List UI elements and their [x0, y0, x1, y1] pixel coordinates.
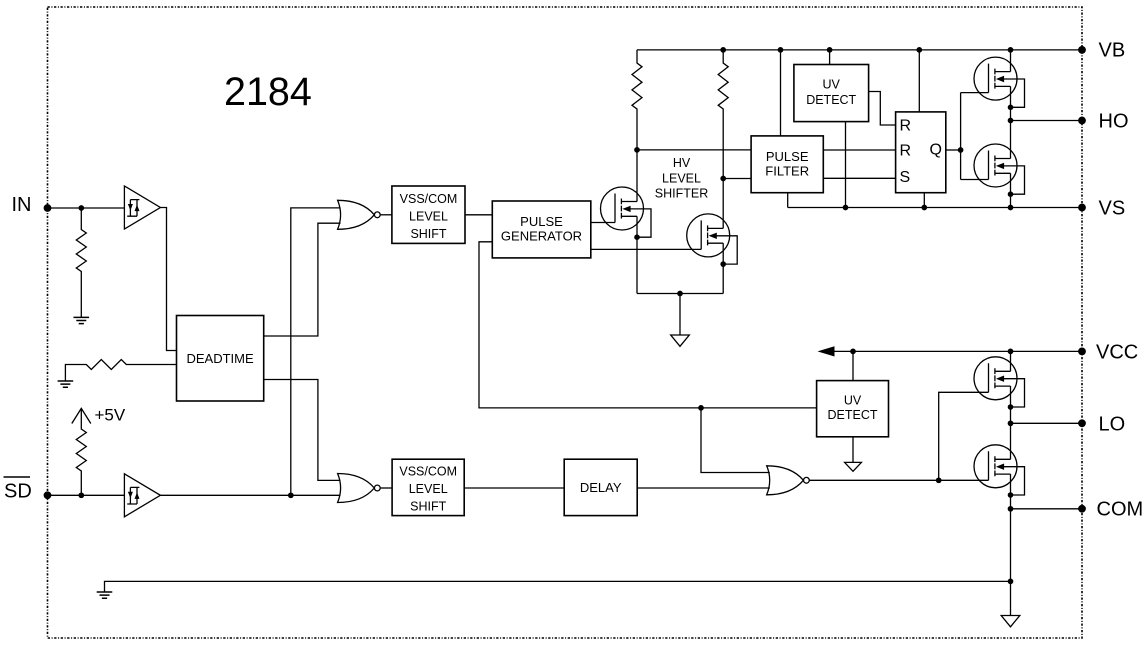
wire latch Q output	[946, 149, 961, 151]
wire Q4 drain to HO	[1010, 121, 1012, 159]
junction COM/VSS rail	[1008, 579, 1014, 585]
wire Q1 drain	[636, 150, 638, 202]
wire U6 output	[809, 479, 988, 481]
svg-text:DETECT: DETECT	[806, 93, 856, 107]
wire level shift to delay	[464, 487, 564, 489]
pin dot IN	[44, 204, 52, 212]
wire U2 output	[380, 487, 392, 489]
transistor Q5 (LO driver high)	[974, 357, 1025, 410]
VSS/COM LEVEL SHIFT block (low side)	[392, 459, 464, 515]
transistor Q6 (LO driver low)	[974, 445, 1025, 498]
svg-text:VCC: VCC	[1096, 342, 1138, 364]
svg-text:LEVEL: LEVEL	[409, 210, 448, 224]
wire DEADTIME lower output to NOR U2 upper input	[264, 380, 341, 481]
junction VB/pulse filter	[778, 47, 784, 53]
wire A1 output to DEADTIME top-left	[160, 208, 176, 351]
svg-text:COM: COM	[1097, 499, 1144, 521]
junction Q1 drain / R4 / pulse filter	[634, 147, 640, 153]
junction VS/UV detect	[843, 205, 849, 211]
pin dot LO	[1078, 419, 1086, 427]
junction VCC/UV detect	[850, 349, 856, 355]
transistor Q1 (HV level shift)	[601, 187, 652, 240]
ground (below R1)	[74, 317, 90, 323]
wire Q to gates of Q3/Q4	[961, 93, 989, 180]
NOR gate U2 (low side)	[338, 474, 381, 503]
svg-text:VSS/COM: VSS/COM	[399, 465, 457, 479]
svg-text:IN: IN	[12, 194, 32, 216]
PULSE GENERATOR block	[492, 201, 591, 258]
pin dot VS	[1078, 204, 1086, 212]
transistor Q3 (HO driver high)	[974, 57, 1025, 110]
NOR gate U1 (high side)	[338, 200, 381, 229]
PULSE FILTER block	[751, 136, 823, 193]
HV LEVEL SHIFTER label	[655, 156, 708, 201]
svg-text:R: R	[900, 118, 912, 135]
wire IN input	[48, 207, 125, 209]
+5V arrow	[72, 408, 91, 423]
wire Q2 source	[722, 243, 724, 293]
svg-text:SD: SD	[4, 481, 32, 503]
wire Q1 source	[636, 216, 638, 293]
junction HO node	[1008, 118, 1014, 124]
junction SD branch	[288, 492, 294, 498]
wire pulse filter bottom to VS rail	[787, 193, 789, 208]
wire Q4 source to VS	[1010, 173, 1012, 207]
pin dot VB	[1078, 46, 1086, 54]
UV DETECT block (high side)	[794, 65, 869, 122]
junction enable/NOR U6	[698, 405, 704, 411]
svg-text:DETECT: DETECT	[828, 408, 878, 422]
svg-text:HV: HV	[673, 156, 691, 170]
ground triangle (COM)	[1001, 616, 1020, 627]
wire level shift to pulse generator	[465, 214, 492, 216]
wire level shifter source bus	[637, 294, 723, 336]
svg-text:DEADTIME: DEADTIME	[187, 351, 255, 366]
svg-text:SHIFTER: SHIFTER	[655, 187, 708, 201]
wire R5 node to pulse filter and latch S input	[723, 177, 895, 179]
wire Q5 source to LO	[1010, 386, 1012, 423]
wire VS rail	[788, 207, 1082, 209]
svg-text:Q: Q	[930, 142, 942, 159]
svg-text:SHIFT: SHIFT	[410, 500, 446, 514]
pin dot HO	[1078, 117, 1086, 125]
Schmitt buffer A2 (SD)	[124, 474, 160, 517]
wire COM down to ground triangle	[1010, 509, 1012, 616]
wire Q5 drain to VCC	[1010, 351, 1012, 371]
svg-text:PULSE: PULSE	[766, 149, 809, 164]
svg-text:VB: VB	[1099, 40, 1126, 62]
resistor R2 (deadtime set)	[65, 360, 176, 382]
junction IN/R1	[78, 205, 84, 211]
ground (below R2)	[58, 381, 74, 387]
junction source bus	[677, 291, 683, 297]
wire R4 node to pulse filter and latch R input	[637, 149, 896, 151]
wire VB rail	[637, 49, 1082, 51]
wire A2 output to NOR U2 lower input	[160, 494, 340, 496]
svg-text:UV: UV	[844, 394, 862, 408]
junction VS/latch	[921, 205, 927, 211]
wire Q2 drain	[722, 179, 724, 229]
DELAY block	[564, 459, 637, 515]
DEADTIME block	[177, 316, 264, 402]
pin label SD (with overline)	[4, 476, 31, 478]
junction COM node	[1008, 506, 1014, 512]
wire VCC rail	[833, 350, 1082, 352]
ground triangle (UV detect)	[845, 462, 862, 471]
pin dot VCC	[1078, 348, 1086, 356]
wire VB to latch top	[918, 50, 920, 112]
wire SD branch up to NOR U1 upper input	[291, 208, 341, 495]
junction VB/Q3 drain	[1008, 47, 1014, 53]
resistor R3 (SD pullup to +5V)	[76, 408, 86, 495]
junction VB/latch	[916, 47, 922, 53]
Schmitt buffer A1 (IN)	[124, 186, 160, 229]
VSS/COM LEVEL SHIFT block (high side)	[392, 186, 465, 243]
wire HO output	[1011, 120, 1083, 122]
wire VB to pulse filter top	[780, 50, 782, 136]
wire Q6 source to COM	[1010, 474, 1012, 509]
svg-text:FILTER: FILTER	[765, 164, 809, 179]
ground (VSS rail)	[97, 592, 113, 598]
wire VB to UV detect top	[829, 50, 831, 65]
junction VB/UV detect	[827, 47, 833, 53]
wire VCC to UV detect top	[852, 351, 854, 380]
svg-text:LEVEL: LEVEL	[662, 172, 701, 186]
pin dot COM	[1078, 505, 1086, 513]
wire COM output	[1011, 508, 1083, 510]
svg-text:GENERATOR: GENERATOR	[501, 228, 582, 243]
transistor Q2 (HV level shift)	[687, 214, 738, 267]
transistor Q4 (HO driver low)	[974, 144, 1025, 197]
resistor R4 (HV level shift pullup)	[632, 50, 642, 150]
svg-text:S: S	[900, 169, 911, 186]
junction Q output	[958, 147, 964, 153]
junction Q2 drain / R5 / pulse filter	[720, 176, 726, 182]
wire Q3 drain to VB	[1010, 50, 1012, 72]
svg-text:LEVEL: LEVEL	[409, 482, 448, 496]
wire junction down to NOR U6 upper input	[701, 408, 770, 473]
wire DEADTIME upper output to NOR U1 lower input	[264, 223, 341, 336]
junction LO node	[1008, 420, 1014, 426]
svg-text:LO: LO	[1099, 414, 1126, 436]
wire latch bottom to VS rail	[923, 193, 925, 208]
wire branch up to Q5 gate	[939, 392, 989, 480]
wire pulse generator to Q2 gate	[591, 248, 701, 250]
svg-text:PULSE: PULSE	[520, 214, 563, 229]
junction VS/Q4 source	[1008, 205, 1014, 211]
wire UV detect bottom to VS rail	[845, 122, 847, 208]
RS latch U5	[896, 112, 946, 193]
UV DETECT block (low side)	[817, 381, 889, 437]
svg-text:VSS/COM: VSS/COM	[400, 192, 458, 206]
junction U6 output branch	[936, 477, 942, 483]
wire U1 output	[380, 214, 392, 216]
resistor R5 (HV level shift pullup)	[718, 50, 728, 179]
wire pulse generator to Q1 gate	[591, 222, 615, 224]
wire UV detect to latch R1 input	[869, 92, 896, 126]
wire Q3 source to HO	[1010, 86, 1012, 120]
svg-text:UV: UV	[823, 78, 841, 92]
pin dot SD	[44, 491, 52, 499]
NOR gate U6 (LO driver)	[767, 466, 810, 495]
svg-text:+5V: +5V	[95, 406, 126, 425]
VCC supply arrow	[818, 346, 835, 356]
wire UV detect bottom to ground triangle	[852, 437, 854, 463]
wire delay to NOR U6 lower input	[637, 487, 770, 489]
wire VSS bottom rail	[105, 581, 1011, 592]
svg-text:DELAY: DELAY	[580, 480, 622, 495]
wire Q6 drain to LO	[1010, 423, 1012, 459]
ground triangle (level shifter)	[671, 335, 690, 346]
junction SD/R3	[78, 492, 84, 498]
wire LO output	[1011, 422, 1083, 424]
svg-text:HO: HO	[1099, 111, 1129, 133]
wire pulse generator enable from UV detect (low side)	[479, 242, 817, 408]
junction VB/R5	[720, 47, 726, 53]
svg-text:VS: VS	[1099, 198, 1126, 220]
svg-text:R: R	[900, 143, 912, 160]
wire SD input	[48, 494, 125, 496]
svg-text:2184: 2184	[224, 70, 312, 114]
svg-text:SHIFT: SHIFT	[410, 227, 446, 241]
junction VCC/Q5 drain	[1008, 349, 1014, 355]
resistor R1 (IN pulldown)	[76, 208, 86, 317]
